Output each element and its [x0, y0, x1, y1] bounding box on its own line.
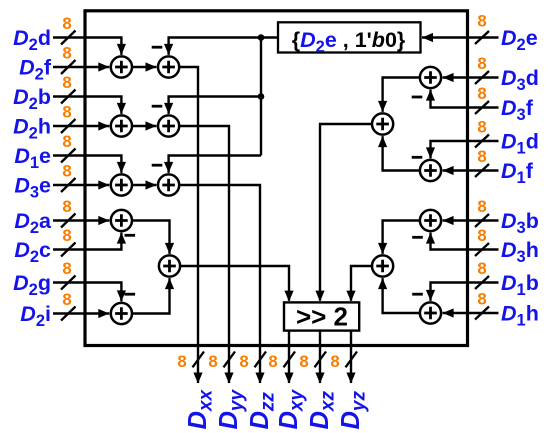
arrowhead D2d into U1 [117, 44, 126, 55]
svg-text:8: 8 [62, 102, 71, 121]
wire U6 output to Dzz [179, 185, 260, 383]
arrowhead D3h into U13 [426, 233, 435, 244]
svg-text:8: 8 [62, 259, 71, 278]
svg-text:>> 2: >> 2 [296, 302, 348, 332]
arrowhead output Dyz [346, 373, 355, 384]
bus slash D3f [475, 101, 489, 114]
wire shifter output at x=320 [319, 331, 321, 383]
arrowhead D2h into U2 [98, 121, 109, 130]
bus slash D1e [61, 149, 76, 163]
shifter box >>2 [284, 302, 359, 332]
wire D2e to concat box [422, 36, 499, 38]
svg-text:8: 8 [62, 14, 71, 33]
svg-text:8: 8 [62, 197, 71, 216]
wire net 2*D2e vertical branch [260, 38, 262, 156]
arrowhead D2g into U9 [117, 290, 126, 301]
adder U15 (D1h-D1b) [420, 302, 441, 323]
arrowhead U8 into shifter [284, 291, 293, 302]
arrowhead U10 into U11 [378, 101, 387, 112]
junction node 2*D2e branch B [258, 93, 265, 100]
bus slash D2b [61, 90, 76, 104]
wire U2 to U5 [132, 125, 157, 127]
bus slash output Dxy [284, 352, 296, 368]
wire D3h to U13 bottom [431, 233, 499, 250]
wire D2g to U9 top [53, 283, 121, 302]
arrowhead U3 into U6 [146, 180, 157, 189]
minus sign at U13 subtrahend input [412, 236, 423, 239]
svg-text:8: 8 [62, 226, 71, 245]
wire shifter output at x=289 [288, 331, 290, 383]
arrowhead D2c into U7 [117, 233, 126, 244]
svg-text:8: 8 [477, 226, 486, 245]
wire shifter output at x=351 [350, 331, 352, 383]
adder U2 (D2b+D2h) [111, 115, 132, 136]
wire net 2*D2e to U5 [169, 97, 261, 114]
arrowhead U13 into U14 [378, 243, 387, 254]
bus slash output Dxx [193, 352, 205, 368]
arrowhead U7 into U8 [165, 243, 174, 254]
wire U1 to U4 [132, 66, 157, 68]
arrowhead U9 into U8 [165, 278, 174, 289]
svg-text:8: 8 [62, 43, 71, 62]
bus slash D2i [61, 307, 76, 321]
bus slash D1b [475, 276, 489, 289]
arrowhead U12 into U11 [378, 136, 387, 147]
bus slash output Dyy [224, 352, 236, 368]
wire D3e to U3 left [53, 184, 109, 186]
svg-text:8: 8 [477, 84, 486, 103]
svg-text:{D2e , 1'b0}: {D2e , 1'b0} [292, 28, 406, 56]
arrowhead D3d into U10 [443, 73, 454, 82]
adder U7 (D2a-D2c) [111, 210, 132, 231]
arrowhead D2i into U9 [98, 309, 109, 318]
minus sign at U9 subtrahend input [125, 293, 136, 296]
wire U4 output to Dxx [179, 67, 198, 383]
svg-text:8: 8 [330, 352, 339, 371]
bus slash output Dzz [255, 352, 267, 368]
bus slash D3b [475, 214, 489, 227]
svg-text:8: 8 [177, 352, 186, 371]
bus slash D2c [61, 243, 76, 257]
arrowhead D1d into U12 [426, 147, 435, 158]
bus slash D3d [475, 71, 489, 84]
adder U13 (D3b-D3h) [420, 210, 441, 231]
arrowhead output Dzz [255, 373, 264, 384]
wire net 2*D2e to U6 [169, 156, 261, 173]
wire D2f to U1 left [53, 66, 109, 68]
wire D2d to U1 top [53, 38, 121, 55]
arrowhead D1f into U12 [443, 166, 454, 175]
minus sign at U10 subtrahend input [412, 96, 423, 99]
adder U6 (subtract 2*D2e) [158, 174, 179, 195]
bus slash D1d [475, 135, 489, 148]
arrowhead U2 into U5 [146, 121, 157, 130]
wire U14 output to shifter [351, 266, 372, 301]
arrowhead U15 into U14 [378, 278, 387, 289]
adder U10 (D3d-D3f) [420, 67, 441, 88]
arrowhead D1e into U3 [117, 162, 126, 173]
bus slash output Dxz [315, 352, 327, 368]
svg-text:8: 8 [477, 259, 486, 278]
arrowhead output Dyy [224, 373, 233, 384]
arrowhead output Dxx [193, 373, 202, 384]
minus sign at U12 subtrahend input [412, 156, 423, 159]
wire D2b to U2 top [53, 97, 121, 114]
arrowhead D2e into concat box [422, 33, 433, 42]
bus slash D3e [61, 178, 76, 192]
wire U9 output to U8 bottom [132, 278, 170, 313]
svg-text:8: 8 [239, 352, 248, 371]
wire net 2*D2e from concat box to U4 [169, 38, 278, 55]
wire D3b to U13 right [443, 219, 499, 221]
bus slash D2h [61, 119, 76, 133]
svg-text:8: 8 [477, 289, 486, 308]
adder U12 (D1f-D1d) [420, 160, 441, 181]
block outer border [85, 11, 468, 346]
svg-text:8: 8 [299, 352, 308, 371]
svg-text:8: 8 [62, 73, 71, 92]
arrowhead D3b into U13 [443, 216, 454, 225]
wire D2a to U7 left [53, 219, 109, 221]
bus slash D2a [61, 214, 76, 228]
adder U3 (D1e+D3e) [111, 174, 132, 195]
minus sign at U15 subtrahend input [412, 293, 423, 296]
arrowhead 2*D2e into U4 [164, 44, 173, 55]
svg-text:8: 8 [268, 352, 277, 371]
arrowhead 2*D2e into U6 [164, 162, 173, 173]
bus slash output Dyz [346, 352, 358, 368]
arrowhead 2*D2e into U5 [164, 103, 173, 114]
arrowhead D2a into U7 [98, 216, 109, 225]
wire U12 output to U11 bottom [383, 136, 420, 170]
bus slash D2g [61, 276, 76, 290]
arrowhead D3f into U10 [426, 90, 435, 101]
bus slash D2d [61, 31, 76, 45]
svg-text:8: 8 [477, 197, 486, 216]
wire D3f to U10 bottom [431, 90, 499, 108]
arrowhead U11 into shifter [315, 291, 324, 302]
minus sign at U4 subtrahend input [152, 46, 163, 49]
bus slash D3h [475, 243, 489, 256]
svg-text:8: 8 [62, 290, 71, 309]
wire U5 output to Dyy [179, 126, 229, 383]
bus slash D2e [475, 31, 489, 44]
arrowhead output Dxy [284, 373, 293, 384]
minus sign at U7 subtrahend input [125, 234, 136, 237]
adder U8 (sum for Dxy) [159, 255, 180, 276]
arrowhead D1b into U15 [426, 290, 435, 301]
wire U13 output to U14 top [383, 221, 420, 254]
svg-text:8: 8 [62, 161, 71, 180]
wire U15 output to U14 bottom [383, 278, 420, 313]
adder U4 (subtract 2*D2e) [158, 56, 179, 77]
arrowhead D2f into U1 [98, 62, 109, 71]
wire D2i to U9 left [53, 312, 109, 314]
junction node 2*D2e branch A [258, 34, 265, 41]
concatenation box {D2e,1b0} (2*D2e) [278, 22, 421, 56]
adder U11 (sum for Dxz) [372, 113, 393, 134]
svg-text:8: 8 [208, 352, 217, 371]
svg-text:8: 8 [477, 12, 486, 31]
adder U9 (D2i-D2g) [111, 303, 132, 324]
wire D1e to U3 top [53, 156, 121, 173]
svg-text:8: 8 [62, 132, 71, 151]
adder U1 (D2d+D2f) [111, 56, 132, 77]
adder U5 (subtract 2*D2e) [158, 115, 179, 136]
arrowhead U1 into U4 [146, 62, 157, 71]
wire D1f to U12 right [443, 169, 499, 171]
wire D1d to U12 top [431, 141, 499, 158]
bus slash D2f [61, 60, 76, 74]
svg-text:D2i: D2i [20, 302, 51, 330]
wire U7 output to U8 top [132, 221, 170, 254]
wire D2c to U7 bottom [53, 233, 121, 250]
wire U11 output to shifter [320, 124, 372, 301]
arrowhead D1h into U15 [443, 308, 454, 317]
wire D1h to U15 right [443, 312, 499, 314]
svg-text:8: 8 [477, 54, 486, 73]
svg-text:8: 8 [477, 117, 486, 136]
arrowhead D3e into U3 [98, 180, 109, 189]
wire U3 to U6 [132, 184, 157, 186]
wire U8 output to shifter [180, 266, 289, 301]
wire D3d to U10 right [443, 76, 499, 78]
bus slash D1f [475, 164, 489, 177]
wire D1b to U15 top [431, 283, 499, 301]
wire U10 output to U11 top [383, 78, 420, 112]
bus slash D1h [475, 307, 489, 320]
arrowhead D2b into U2 [117, 103, 126, 114]
svg-text:8: 8 [477, 147, 486, 166]
minus sign at U6 subtrahend input [152, 164, 163, 167]
arrowhead U14 into shifter [346, 291, 355, 302]
minus sign at U5 subtrahend input [152, 105, 163, 108]
arrowhead output Dxz [315, 373, 324, 384]
adder U14 (sum for Dyz) [372, 255, 393, 276]
wire D2h to U2 left [53, 125, 109, 127]
